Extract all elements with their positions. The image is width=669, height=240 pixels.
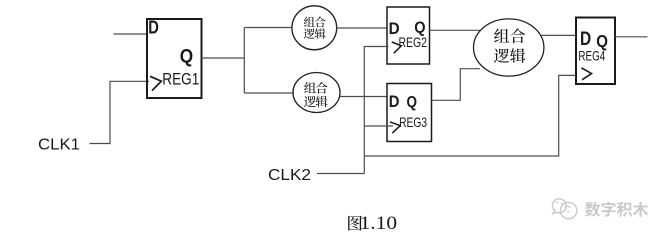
wire: branch to logic2 [244,92,294,94]
wire: branch vertical [243,28,245,94]
wire: trunk to REG2 clock [364,46,388,48]
wire: logic2 to REG3 D [340,96,387,98]
register REG4 [576,18,615,85]
wire: REG3 Q to big logic [432,69,481,101]
register REG2 [387,7,430,64]
wire: REG4 Q output [615,36,648,38]
wire: trunk to REG3 clock [364,125,393,127]
svg-text:REG4: REG4 [578,47,605,63]
svg-text:Q: Q [407,94,418,111]
wire: CLK2 vertical trunk [363,46,365,174]
svg-text:Q: Q [180,46,193,67]
svg-text:D: D [389,93,400,111]
svg-text:REG3: REG3 [399,114,427,130]
register REG1 [147,17,202,98]
comb logic ellipse 2 [293,73,340,113]
watermark logo face marks [556,202,571,212]
wire: logic1 to REG2 D [337,27,387,29]
register REG3 [387,84,432,142]
comb logic ellipse 1 [292,6,337,50]
REG4 clock chevron [581,68,591,80]
comb logic 1 text 组合逻辑 [304,17,315,27]
wire: REG2 Q to big logic [430,29,481,31]
comb logic 2 text 组合逻辑 [304,82,316,93]
comb logic big ellipse [474,19,544,76]
REG1 clock chevron [150,76,161,90]
comb logic 3 text 组合逻辑 [494,29,509,43]
wire: CLK1 to REG1 clock [90,81,150,143]
watermark logo bubble [552,199,576,219]
wire: CLK2 lead [317,173,364,175]
watermark text 数字积木 [585,202,648,217]
wire: REG1 Q out to branch [202,57,245,59]
wire: trunk to REG4 clock [364,75,576,156]
svg-text:REG2: REG2 [399,34,428,50]
svg-text:CLK1: CLK1 [38,137,80,154]
caption 图1.10 [348,213,397,234]
REG3 clock chevron [390,122,400,133]
svg-text:D: D [148,17,159,37]
svg-text:CLK2: CLK2 [268,167,311,184]
svg-text:1.10: 1.10 [360,213,398,234]
svg-text:REG1: REG1 [162,70,199,89]
wire: big logic to REG4 D [542,34,577,36]
REG2 clock chevron [392,42,402,53]
wire: input to REG1 D [114,33,148,35]
wire: branch to logic1 [244,27,292,29]
